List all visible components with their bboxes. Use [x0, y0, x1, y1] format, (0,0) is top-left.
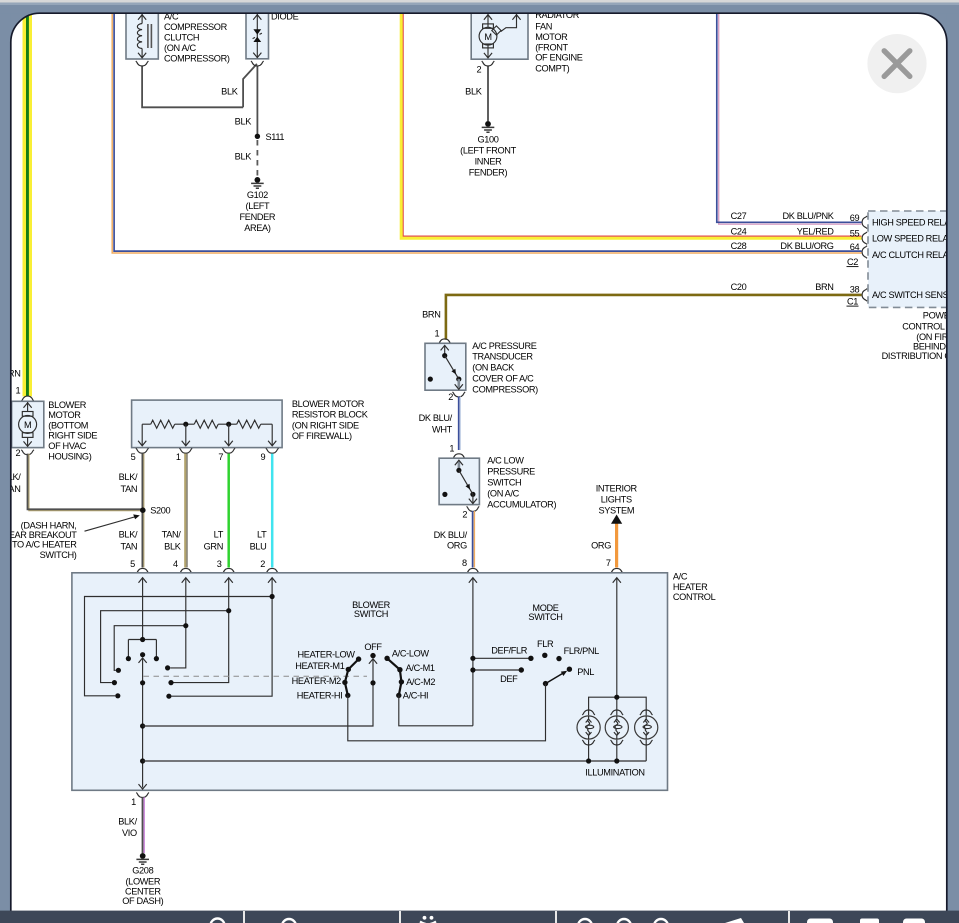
- toolbar icon (partial person): [282, 919, 296, 923]
- svg-text:OF ENGINE: OF ENGINE: [535, 53, 583, 63]
- svg-text:ILLUMINATION: ILLUMINATION: [585, 767, 644, 777]
- svg-text:CLUTCH: CLUTCH: [164, 33, 199, 43]
- svg-text:5: 5: [131, 452, 136, 462]
- A/C low pressure switch box: [439, 454, 479, 505]
- svg-text:2: 2: [260, 559, 265, 569]
- wire BLK/VIO to ground: [143, 797, 145, 853]
- svg-text:2: 2: [16, 448, 21, 458]
- bracket from pin 5: [128, 640, 156, 659]
- illumination bus bottom: [143, 740, 647, 761]
- svg-text:7: 7: [606, 558, 611, 568]
- bracket from pin 4: [114, 626, 186, 671]
- svg-text:COMPT): COMPT): [535, 64, 569, 74]
- svg-text:1: 1: [449, 444, 454, 454]
- svg-text:(BOTTOM: (BOTTOM: [48, 420, 88, 430]
- svg-text:HEATER-LOW: HEATER-LOW: [298, 650, 356, 660]
- svg-text:C20: C20: [731, 282, 747, 292]
- illumination lamp 2: [605, 710, 628, 745]
- svg-text:BLOWER: BLOWER: [48, 400, 86, 410]
- svg-text:BLK: BLK: [235, 152, 253, 162]
- svg-text:DK BLU/PNK: DK BLU/PNK: [782, 211, 834, 221]
- pin 5 internal riser: [142, 578, 144, 640]
- svg-text:MOTOR: MOTOR: [535, 32, 568, 42]
- svg-text:A/C LOW: A/C LOW: [487, 456, 524, 466]
- svg-text:DEF/FLR: DEF/FLR: [491, 646, 528, 656]
- svg-text:8: 8: [462, 558, 467, 568]
- svg-text:DEF: DEF: [500, 674, 518, 684]
- pin 1 heater control bottom: [136, 793, 149, 798]
- svg-text:(ON RIGHT SIDE: (ON RIGHT SIDE: [292, 420, 359, 430]
- svg-text:DK BLU/: DK BLU/: [434, 530, 468, 540]
- wire A/C-HI to pin 8 riser: [399, 695, 473, 725]
- svg-text:C2: C2: [847, 257, 858, 267]
- ground G100: [482, 121, 495, 132]
- svg-text:2: 2: [462, 509, 467, 519]
- svg-text:SWITCH): SWITCH): [40, 550, 77, 560]
- svg-text:OF DASH): OF DASH): [122, 896, 163, 906]
- wire DK BLU/WHT: [459, 397, 461, 451]
- heater contact arc: [345, 659, 359, 695]
- wire TAN/BLK resistor pin1 to heater control: [185, 454, 187, 568]
- svg-text:TRANSDUCER: TRANSDUCER: [472, 352, 533, 362]
- svg-text:GRN: GRN: [204, 541, 223, 551]
- mode switch feeds from pin 8: [473, 658, 531, 670]
- svg-text:TAN/: TAN/: [162, 530, 182, 540]
- close button: [867, 34, 926, 93]
- svg-text:HIGH SPEED RELAY: HIGH SPEED RELAY: [872, 218, 955, 228]
- svg-text:FLR: FLR: [537, 639, 554, 649]
- radiator fan motor ground wire BLK: [487, 66, 489, 121]
- svg-text:S111: S111: [266, 132, 285, 142]
- toolbar icon (umlaut glyph): [423, 916, 427, 920]
- ground G208: [136, 853, 149, 864]
- svg-text:BLK: BLK: [164, 541, 182, 551]
- svg-text:64: 64: [850, 242, 860, 252]
- svg-text:BLU: BLU: [250, 541, 267, 551]
- heater control top pin connectors: [136, 568, 149, 573]
- bracket from pin 2 (outermost): [85, 597, 273, 696]
- svg-text:COMPRESSOR): COMPRESSOR): [472, 384, 538, 394]
- svg-text:VIO: VIO: [122, 828, 137, 838]
- svg-text:HEATER-HI: HEATER-HI: [297, 691, 343, 701]
- svg-text:1: 1: [176, 452, 181, 462]
- svg-text:G100: G100: [477, 134, 498, 144]
- svg-text:(LEFT FRONT: (LEFT FRONT: [460, 145, 516, 155]
- svg-text:38: 38: [850, 284, 860, 294]
- svg-text:2: 2: [448, 392, 453, 402]
- svg-text:PRESSURE: PRESSURE: [487, 467, 535, 477]
- PCM connector pin 38: [862, 289, 867, 302]
- svg-text:SWITCH: SWITCH: [487, 478, 521, 488]
- svg-text:BRN: BRN: [422, 310, 440, 320]
- svg-text:SYSTEM: SYSTEM: [598, 506, 634, 516]
- svg-text:FAN: FAN: [535, 22, 552, 32]
- svg-text:C28: C28: [731, 241, 747, 251]
- svg-text:(LEFT: (LEFT: [246, 201, 271, 211]
- wire YEL (thick yellow feed to blower motor, left edge): [23, 13, 33, 396]
- svg-text:BLK: BLK: [465, 86, 483, 96]
- svg-text:A/C PRESSURE: A/C PRESSURE: [472, 341, 536, 351]
- svg-text:RIGHT SIDE: RIGHT SIDE: [48, 431, 97, 441]
- svg-text:SWITCH: SWITCH: [528, 612, 562, 622]
- svg-text:DK BLU/: DK BLU/: [419, 413, 453, 423]
- svg-text:PNL: PNL: [577, 667, 594, 677]
- svg-text:BLK/: BLK/: [118, 817, 137, 827]
- toolbar icon (partial circle): [211, 919, 225, 923]
- svg-text:A/C SWITCH SENSE: A/C SWITCH SENSE: [872, 290, 954, 300]
- radiator fan motor box: [471, 13, 528, 59]
- svg-text:HEATER-M1: HEATER-M1: [295, 661, 344, 671]
- svg-text:A/C-LOW: A/C-LOW: [392, 649, 430, 659]
- svg-text:S200: S200: [150, 506, 170, 516]
- wire BLK dashed S111 to G102: [256, 140, 258, 177]
- wire LT BLU resistor pin9 to heater control: [271, 454, 274, 568]
- A/C compressor clutch ground wire BLK: [142, 64, 257, 107]
- svg-text:TO A/C HEATER: TO A/C HEATER: [12, 540, 77, 550]
- svg-text:INNER: INNER: [475, 156, 503, 166]
- svg-text:(FRONT: (FRONT: [535, 42, 568, 52]
- pin 2 internal riser: [172, 578, 273, 696]
- blower motor resistor block box: [132, 400, 283, 448]
- wire BRN (PCM C20 pin 38 to A/C pressure transducer): [446, 295, 862, 340]
- svg-text:G102: G102: [247, 190, 268, 200]
- svg-text:COVER OF A/C: COVER OF A/C: [472, 374, 534, 384]
- svg-text:5: 5: [130, 559, 135, 569]
- svg-text:ACCUMULATOR): ACCUMULATOR): [487, 500, 556, 510]
- svg-text:A/C-M1: A/C-M1: [406, 663, 435, 673]
- mode switch contacts: [528, 656, 533, 661]
- svg-text:69: 69: [850, 213, 860, 223]
- splice S111: [255, 134, 260, 139]
- wire ORG with arrow to interior lights: [615, 523, 618, 568]
- PCM connector pin 55: [862, 232, 867, 245]
- svg-text:(LOWER: (LOWER: [125, 876, 160, 886]
- bottom toolbar: [0, 911, 959, 923]
- svg-text:ORG: ORG: [447, 541, 467, 551]
- svg-text:BLK: BLK: [221, 86, 239, 96]
- svg-text:G208: G208: [132, 865, 153, 875]
- svg-text:AREA): AREA): [244, 223, 271, 233]
- resistor block pin connectors: [136, 448, 149, 453]
- wire BLK/TAN resistor pin5 to heater control: [142, 454, 143, 568]
- svg-text:(ON BACK: (ON BACK: [472, 363, 515, 373]
- svg-text:(DASH HARN,: (DASH HARN,: [21, 520, 77, 530]
- svg-text:BRN: BRN: [815, 282, 833, 292]
- diode box: [246, 13, 269, 59]
- svg-text:1: 1: [131, 797, 136, 807]
- wire DK BLU/PNK (PCM C27 pin 69, vertical at x=717 + row 69): [717, 13, 862, 224]
- bracket from pin 3: [101, 611, 229, 683]
- window frame: top bar: [0, 0, 11, 911]
- svg-text:M: M: [484, 32, 491, 42]
- PCM connector pin 69: [862, 216, 867, 229]
- svg-text:OF FIREWALL): OF FIREWALL): [292, 431, 352, 441]
- svg-text:LT: LT: [257, 530, 267, 540]
- arrow pointer to S200: [85, 517, 136, 531]
- toolbar icon (arrow): [725, 918, 744, 923]
- svg-text:COMPRESSOR): COMPRESSOR): [164, 54, 230, 64]
- splice S200: [140, 507, 146, 513]
- svg-text:7: 7: [218, 452, 223, 462]
- svg-text:BLK/: BLK/: [119, 472, 138, 482]
- svg-text:4: 4: [173, 559, 178, 569]
- svg-text:3: 3: [217, 559, 222, 569]
- svg-text:2: 2: [477, 65, 482, 75]
- svg-text:FLR/PNL: FLR/PNL: [564, 646, 600, 656]
- PCM (powertrain control module) dashed box: [868, 211, 959, 307]
- illumination lamp 3: [635, 710, 658, 745]
- svg-text:LT: LT: [214, 530, 224, 540]
- svg-text:INTERIOR: INTERIOR: [596, 484, 638, 494]
- PCM connector pin 64: [862, 246, 867, 259]
- svg-text:A/C CLUTCH RELAY: A/C CLUTCH RELAY: [872, 250, 954, 260]
- svg-text:YEL/RED: YEL/RED: [797, 227, 835, 237]
- svg-text:COMPRESSOR: COMPRESSOR: [164, 22, 228, 32]
- svg-text:RESISTOR BLOCK: RESISTOR BLOCK: [292, 410, 369, 420]
- A/C pressure transducer box: [425, 339, 466, 390]
- svg-text:CENTER: CENTER: [125, 886, 161, 896]
- svg-text:(ON A/C: (ON A/C: [164, 43, 196, 53]
- wire LT GRN resistor pin7 to heater control: [227, 454, 230, 568]
- A/C heater control box: [72, 573, 668, 791]
- svg-text:FENDER: FENDER: [240, 212, 276, 222]
- mode switch wiper arm with arrow: [543, 681, 548, 686]
- svg-text:A/C: A/C: [673, 572, 688, 582]
- svg-text:LIGHTS: LIGHTS: [601, 495, 632, 505]
- svg-text:A/C-HI: A/C-HI: [403, 690, 428, 700]
- pin 4 internal riser: [170, 578, 186, 668]
- svg-text:CONTROL: CONTROL: [673, 592, 716, 602]
- svg-text:55: 55: [850, 229, 860, 239]
- svg-text:HEATER-M2: HEATER-M2: [292, 676, 341, 686]
- A/C contact arc: [387, 658, 401, 695]
- toolbar icon (rounded rects): [807, 919, 833, 923]
- svg-text:9: 9: [261, 452, 266, 462]
- svg-text:BLK/: BLK/: [119, 530, 138, 540]
- svg-text:REAR BREAKOUT: REAR BREAKOUT: [2, 530, 77, 540]
- svg-text:ORG: ORG: [591, 541, 611, 551]
- blower motor box: [12, 396, 44, 447]
- svg-text:HEATER: HEATER: [673, 582, 708, 592]
- svg-text:C27: C27: [731, 211, 747, 221]
- svg-text:C1: C1: [847, 296, 858, 306]
- svg-text:C24: C24: [731, 227, 747, 237]
- svg-text:DK BLU/ORG: DK BLU/ORG: [780, 241, 833, 251]
- junction dots on risers: [270, 594, 275, 599]
- ground G102: [251, 177, 264, 188]
- svg-text:A/C-M2: A/C-M2: [406, 677, 435, 687]
- svg-text:TAN: TAN: [121, 541, 138, 551]
- svg-text:BLOWER MOTOR: BLOWER MOTOR: [292, 399, 365, 409]
- dashed mechanical link: [144, 675, 368, 677]
- blower selector contact dots: [126, 656, 131, 661]
- A/C compressor clutch box: [126, 13, 158, 59]
- svg-text:OFF: OFF: [364, 642, 382, 652]
- illumination lamp bus top: [589, 697, 647, 715]
- svg-text:HOUSING): HOUSING): [48, 451, 91, 461]
- svg-text:FENDER): FENDER): [469, 167, 508, 177]
- diode to S111 wire BLK: [256, 66, 258, 134]
- svg-text:OF HVAC: OF HVAC: [48, 441, 86, 451]
- svg-text:BLK: BLK: [235, 116, 253, 126]
- wire DK BLU/ORG (PCM C28 pin 64 to A/C compressor clutch, long L-run): [112, 13, 861, 253]
- illumination lamp 1: [577, 710, 600, 745]
- svg-text:1: 1: [435, 329, 440, 339]
- svg-text:LOW SPEED RELAY: LOW SPEED RELAY: [872, 234, 954, 244]
- svg-text:TAN: TAN: [121, 484, 138, 494]
- svg-text:(ON A/C: (ON A/C: [487, 489, 519, 499]
- pin 8 internal riser: [472, 578, 474, 726]
- svg-text:MOTOR: MOTOR: [48, 410, 81, 420]
- wire BLK/TAN blower motor to S200: [28, 454, 143, 511]
- svg-text:M: M: [24, 420, 31, 430]
- svg-text:SWITCH: SWITCH: [354, 609, 388, 619]
- blower selector wiper with arrow: [140, 652, 145, 657]
- pin 3 internal riser: [174, 578, 229, 683]
- wire DK BLU/ORG (switch to heater control pin 8): [473, 511, 475, 568]
- svg-text:1: 1: [16, 386, 21, 396]
- toolbar icon (partial circles group): [578, 919, 592, 923]
- wire YEL/RED (PCM C24 pin 55 to radiator fan, L-run): [401, 13, 861, 238]
- svg-text:WHT: WHT: [432, 425, 453, 435]
- pin 7 internal riser: [616, 578, 618, 697]
